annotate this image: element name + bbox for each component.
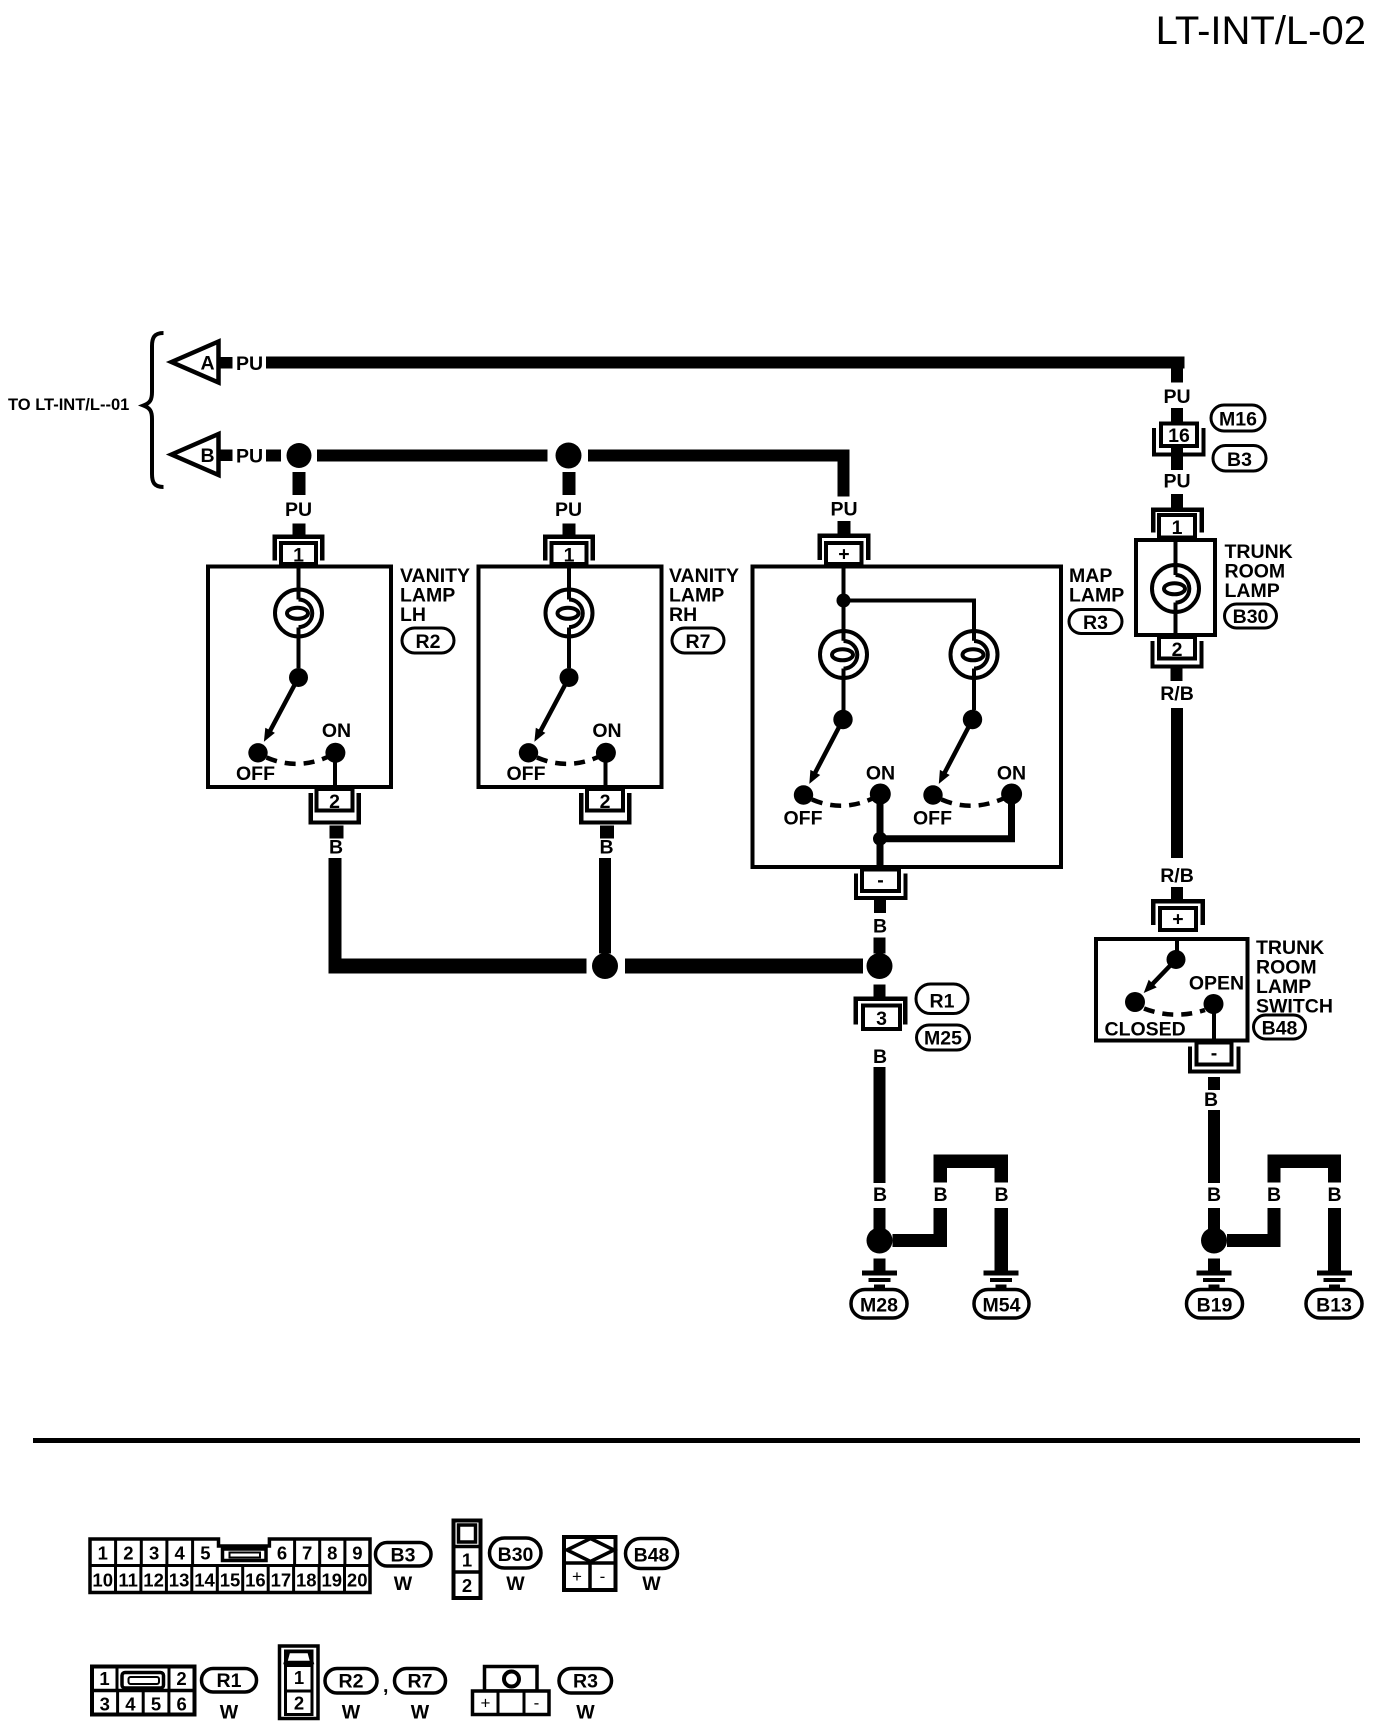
svg-text:B: B (873, 916, 887, 938)
svg-text:-: - (1211, 1043, 1218, 1065)
svg-text:LAMP: LAMP (1069, 585, 1124, 607)
svg-text:-: - (600, 1567, 606, 1586)
svg-text:1: 1 (99, 1668, 109, 1689)
wire (lamp feed) (567, 567, 571, 669)
svg-text:B: B (994, 1184, 1008, 1206)
ground symbol B13 (1317, 1271, 1352, 1289)
connector pin 1 (R2) (273, 535, 325, 567)
bulb map R (951, 631, 998, 678)
svg-text:5: 5 (200, 1543, 210, 1564)
junction node (ground split B19) (1201, 1228, 1227, 1254)
svg-text:R/B: R/B (1160, 865, 1194, 887)
wire down (1208, 1208, 1220, 1230)
connector face R3 (473, 1667, 550, 1715)
wire stub (838, 521, 851, 534)
wire stub below pin 2 (330, 826, 344, 839)
wire stub below pin 2 (1171, 669, 1183, 682)
switch pivot L (833, 710, 852, 729)
wire B segment 1 (317, 450, 548, 462)
svg-text:1: 1 (98, 1543, 108, 1564)
ON contact (596, 743, 616, 763)
svg-text:M25: M25 (924, 1028, 962, 1050)
svg-text:B3: B3 (391, 1545, 416, 1567)
svg-text:RH: RH (669, 604, 697, 626)
wire stub A (219, 357, 233, 369)
svg-text:B48: B48 (1262, 1018, 1298, 1040)
svg-text:,: , (383, 1675, 388, 1697)
ON contact L (870, 784, 891, 805)
svg-text:B: B (873, 1184, 887, 1206)
switch pivot (289, 668, 308, 687)
wire down (1171, 708, 1183, 858)
M54 branch left leg (934, 1168, 948, 1183)
wire B corner down to map lamp (838, 450, 850, 497)
ON contact (325, 743, 345, 763)
wire vanity LH down (329, 858, 342, 974)
connector ref M16 (1211, 405, 1265, 431)
svg-text:OFF: OFF (507, 763, 546, 785)
B13 branch top bar (1268, 1155, 1342, 1169)
svg-text:R7: R7 (408, 1671, 433, 1693)
svg-text:PU: PU (236, 353, 263, 375)
svg-text:LAMP: LAMP (1225, 580, 1280, 602)
svg-text:2: 2 (123, 1543, 133, 1564)
svg-text:12: 12 (143, 1570, 164, 1591)
svg-text:ON: ON (322, 720, 351, 742)
OFF contact L (794, 785, 813, 804)
svg-text:M54: M54 (983, 1295, 1021, 1317)
wire stub B (219, 450, 233, 462)
ground symbol M28 (862, 1271, 897, 1289)
wire stub below 16 (1171, 448, 1183, 470)
svg-text:2: 2 (462, 1575, 472, 1596)
svg-text:B: B (933, 1184, 947, 1206)
svg-text:B: B (1204, 1089, 1218, 1111)
svg-text:M16: M16 (1219, 409, 1257, 431)
wire OPEN to minus (1212, 1004, 1216, 1041)
ground ref B19 (1187, 1290, 1243, 1319)
wire A corner down (1171, 357, 1183, 383)
ground symbol B19 (1197, 1271, 1232, 1289)
svg-text:OFF: OFF (236, 763, 275, 785)
svg-text:2: 2 (1172, 639, 1183, 661)
svg-text:W: W (411, 1702, 430, 1724)
svg-text:+: + (481, 1694, 491, 1713)
svg-text:1: 1 (564, 545, 575, 567)
wire stub (563, 524, 576, 535)
legend ref R3 (559, 1669, 612, 1694)
svg-text:2: 2 (294, 1693, 304, 1714)
connector ref R2 (402, 628, 454, 653)
vanity lamp RH box (479, 567, 662, 788)
svg-text:B30: B30 (1233, 606, 1269, 628)
svg-text:B: B (1267, 1184, 1281, 1206)
B13 branch right leg (1328, 1168, 1341, 1183)
junction node (switch outputs) (873, 832, 887, 846)
svg-text:19: 19 (322, 1570, 343, 1591)
connector pin 16 (M16/B3) (1152, 424, 1206, 457)
wire down (874, 1067, 886, 1183)
legend ref B48 (626, 1539, 678, 1569)
switch lever arrow (534, 678, 569, 742)
dashed arc R (942, 799, 1004, 806)
internal wire (1174, 540, 1178, 635)
svg-text:B48: B48 (634, 1545, 670, 1567)
svg-text:OFF: OFF (784, 808, 823, 830)
wire stub (1171, 408, 1183, 422)
switch lever arrow L (809, 720, 843, 784)
connector pin + (B48) (1151, 899, 1205, 931)
svg-text:ON: ON (592, 720, 621, 742)
switch pivot (560, 668, 579, 687)
svg-text:PU: PU (1163, 471, 1190, 493)
wire stub below junction (874, 985, 886, 997)
OFF contact (519, 743, 538, 762)
svg-text:20: 20 (347, 1570, 368, 1591)
wire stub to ground (1208, 1259, 1220, 1272)
wire down (1208, 1110, 1220, 1183)
wire stub (1171, 494, 1183, 508)
ground symbol M54 (984, 1271, 1019, 1289)
svg-text:LH: LH (400, 604, 426, 626)
label TRUNK ROOM LAMP SWITCH (1256, 937, 1333, 1018)
svg-text:7: 7 (302, 1543, 312, 1564)
CLOSED contact (1125, 992, 1145, 1012)
svg-text:TO LT-INT/L--01: TO LT-INT/L--01 (8, 396, 129, 414)
svg-text:W: W (342, 1702, 361, 1724)
OPEN contact (1204, 994, 1224, 1014)
svg-text:W: W (642, 1573, 661, 1595)
wire to ground bus (874, 938, 886, 954)
svg-text:R7: R7 (686, 631, 711, 653)
wire ON to pin 2 (333, 753, 337, 787)
wire stub below pin 2 (600, 826, 614, 839)
svg-text:16: 16 (1168, 425, 1190, 447)
svg-text:CLOSED: CLOSED (1105, 1019, 1186, 1041)
svg-text:PU: PU (285, 499, 312, 521)
svg-text:OFF: OFF (913, 808, 952, 830)
svg-text:6: 6 (277, 1543, 287, 1564)
legend ref R2 (325, 1669, 377, 1694)
svg-text:ON: ON (997, 763, 1026, 785)
off-page arrow A (172, 342, 219, 383)
label VANITY LAMP RH (669, 565, 739, 626)
dashed travel arc (537, 757, 598, 764)
svg-text:1: 1 (294, 1667, 304, 1688)
wire A (top bus) (266, 357, 1185, 369)
connector ref R1 (916, 984, 968, 1014)
junction node (ground split M28) (867, 1228, 893, 1254)
label TRUNK ROOM LAMP (1225, 541, 1293, 602)
wire stub to ground (874, 1259, 886, 1272)
svg-text:1: 1 (1172, 517, 1183, 539)
svg-text:A: A (200, 353, 214, 375)
svg-text:-: - (534, 1694, 540, 1713)
OFF contact R (923, 785, 942, 804)
junction node (inside map lamp) (837, 594, 851, 608)
svg-text:16: 16 (245, 1570, 266, 1591)
off-page arrow B (172, 434, 219, 475)
ground bus segment 2 (625, 959, 863, 974)
dashed arc (1144, 1009, 1205, 1015)
connector pin 2 (R7) (579, 789, 632, 825)
dashed travel arc (267, 757, 328, 764)
junction node (vanity RH tap) (556, 443, 582, 469)
svg-text:5: 5 (151, 1694, 161, 1715)
legend ref B3 (376, 1543, 432, 1567)
connector ref B3 (1213, 446, 1266, 472)
vanity lamp LH box (208, 567, 391, 788)
svg-text:R/B: R/B (1160, 683, 1194, 705)
wire stub below - (1208, 1077, 1220, 1090)
wire stub (1171, 887, 1183, 900)
svg-text:B19: B19 (1197, 1295, 1233, 1317)
ground bus segment 1 (329, 959, 587, 974)
connector face R1 (92, 1667, 195, 1715)
svg-text:B: B (873, 1046, 887, 1068)
wire (lamp feed) (297, 567, 301, 669)
svg-text:ON: ON (866, 763, 895, 785)
internal wire (1175, 939, 1179, 955)
svg-text:W: W (394, 1573, 413, 1595)
svg-text:4: 4 (175, 1543, 186, 1564)
bulb RH (546, 590, 593, 637)
svg-text:2: 2 (176, 1668, 186, 1689)
svg-text:PU: PU (555, 499, 582, 521)
connector face R2/R7 (280, 1646, 319, 1719)
svg-text:6: 6 (177, 1694, 187, 1715)
bulb LH (275, 590, 322, 637)
connector ref R3 (1069, 610, 1122, 635)
svg-text:4: 4 (125, 1694, 136, 1715)
svg-text:1: 1 (462, 1550, 472, 1571)
svg-text:+: + (1172, 909, 1183, 931)
svg-text:10: 10 (92, 1570, 113, 1591)
trunk room lamp box (1136, 540, 1215, 635)
wire link to B13 branch (1227, 1234, 1281, 1247)
wire stub below - (874, 900, 886, 913)
label MAP LAMP (1069, 565, 1124, 607)
switch lever arrow R (939, 720, 973, 784)
separator line (33, 1438, 1360, 1443)
wire stub below tap LH (293, 472, 306, 495)
connector pin + (R3) (818, 534, 871, 566)
svg-text:R1: R1 (930, 991, 955, 1013)
svg-text:LT-INT/L-02: LT-INT/L-02 (1156, 9, 1366, 53)
svg-text:+: + (838, 544, 849, 566)
B13 branch left leg (1268, 1168, 1281, 1183)
svg-text:W: W (506, 1573, 525, 1595)
M54 branch right leg (995, 1168, 1009, 1183)
svg-text:+: + (572, 1567, 582, 1586)
M54 branch top bar (934, 1155, 1009, 1169)
ground ref M28 (851, 1290, 907, 1319)
brace (144, 333, 164, 487)
wire vanity RH down (599, 858, 611, 954)
switch lever arrow (264, 678, 299, 742)
svg-text:PU: PU (236, 446, 263, 468)
svg-text:11: 11 (118, 1570, 138, 1591)
legend ref R1 (202, 1669, 257, 1693)
svg-text:B: B (1327, 1184, 1341, 1206)
svg-text:B: B (329, 837, 343, 859)
wire link to M54 branch (893, 1234, 948, 1247)
connector ref B30 (1225, 604, 1277, 628)
connector pin - (R3) (854, 870, 908, 901)
connector face B48 (564, 1537, 616, 1590)
switch pivot (1167, 950, 1186, 969)
svg-text:3: 3 (876, 1008, 887, 1030)
internal wires from + (844, 567, 975, 711)
dashed arc L (812, 799, 873, 806)
svg-text:W: W (576, 1702, 595, 1724)
connector face B30 (454, 1521, 481, 1599)
svg-text:9: 9 (352, 1543, 362, 1564)
map lamp box (753, 567, 1062, 868)
switch pivot R (963, 710, 982, 729)
svg-text:17: 17 (271, 1570, 292, 1591)
svg-text:B30: B30 (498, 1544, 534, 1566)
junction node (vanity LH tap) (287, 443, 312, 468)
svg-text:3: 3 (149, 1543, 159, 1564)
svg-text:R3: R3 (1083, 612, 1108, 634)
svg-text:B3: B3 (1227, 449, 1252, 471)
svg-text:R2: R2 (416, 631, 441, 653)
svg-text:-: - (877, 870, 884, 892)
svg-text:1: 1 (293, 545, 304, 567)
label VANITY LAMP LH (400, 565, 470, 626)
trunk room lamp switch box (1096, 939, 1248, 1041)
wire ON to pin 2 (604, 753, 608, 787)
connector ref B48 (1254, 1015, 1306, 1040)
svg-text:B13: B13 (1316, 1295, 1352, 1317)
svg-text:13: 13 (169, 1570, 190, 1591)
svg-text:B: B (1207, 1184, 1221, 1206)
svg-text:M28: M28 (860, 1295, 898, 1317)
svg-text:PU: PU (1163, 386, 1190, 408)
connector pin 3 (R1/M25) (854, 997, 908, 1031)
junction node (map lamp tap on bus) (867, 953, 893, 979)
connector ref R7 (672, 628, 724, 653)
wire stub (293, 524, 306, 535)
bulb trunk (1152, 565, 1199, 612)
svg-text:R1: R1 (217, 1670, 242, 1692)
svg-text:8: 8 (327, 1543, 337, 1564)
connector pin 1 (R7) (543, 535, 595, 567)
wire B segment 2 (588, 450, 850, 462)
svg-text:W: W (220, 1702, 239, 1724)
svg-text:OPEN: OPEN (1189, 973, 1244, 995)
svg-text:R3: R3 (573, 1671, 598, 1693)
legend ref R7 (395, 1669, 446, 1694)
ground ref B13 (1306, 1290, 1362, 1319)
connector pin 2 (B30) (1151, 637, 1204, 669)
wire stub below tap RH (563, 472, 576, 495)
svg-text:3: 3 (100, 1694, 110, 1715)
svg-text:PU: PU (830, 499, 857, 521)
connector face B3 (20-pin) (90, 1539, 370, 1593)
OFF contact (248, 743, 267, 762)
svg-text:15: 15 (220, 1570, 241, 1591)
wire B stub (266, 450, 281, 462)
connector pin - (B48) (1188, 1043, 1241, 1074)
wire down (874, 1208, 886, 1230)
connector pin 1 (B30) (1151, 508, 1204, 540)
svg-text:18: 18 (296, 1570, 317, 1591)
legend ref B30 (490, 1538, 542, 1568)
svg-text:14: 14 (194, 1570, 215, 1591)
svg-text:2: 2 (329, 791, 340, 813)
connector ref M25 (917, 1025, 970, 1050)
junction node (RH tap on bus) (592, 953, 618, 979)
switch lever arrow (1144, 960, 1176, 994)
bulb map L (820, 631, 867, 678)
svg-text:B: B (200, 445, 214, 467)
svg-text:2: 2 (600, 791, 611, 813)
ON contact R (1001, 784, 1022, 805)
wires ON contacts to minus pin (880, 794, 1015, 867)
connector pin 2 (R2) (309, 789, 362, 825)
svg-text:B: B (599, 837, 613, 859)
ground ref M54 (974, 1290, 1029, 1319)
svg-text:R2: R2 (339, 1671, 364, 1693)
